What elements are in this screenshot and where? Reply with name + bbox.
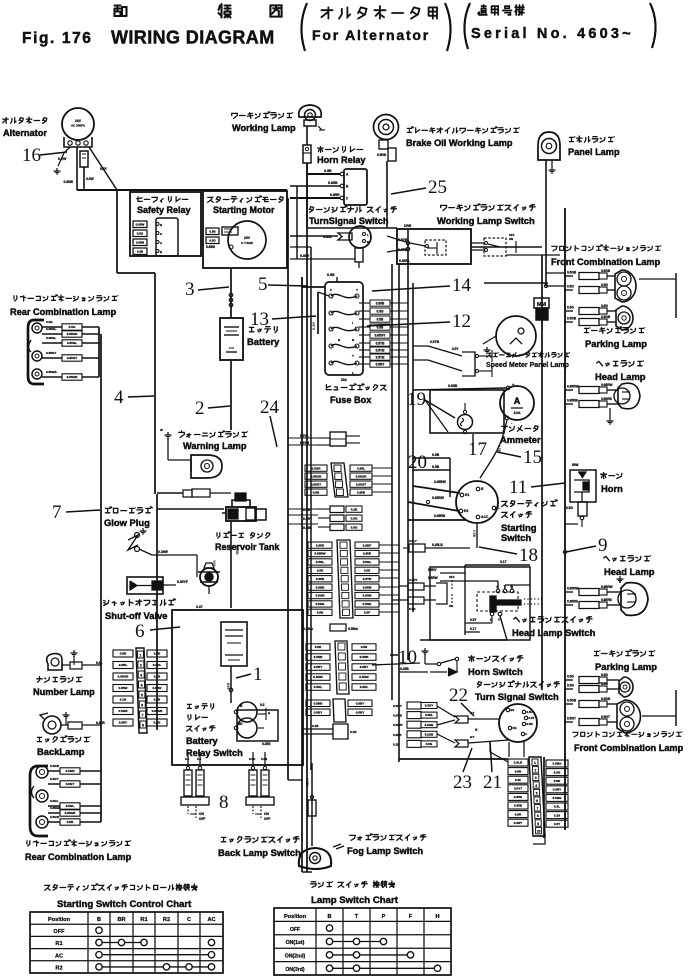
svg-text:10A: 10A bbox=[513, 410, 520, 415]
svg-text:0.2GB: 0.2GB bbox=[425, 723, 435, 727]
svg-text:1: 1 bbox=[140, 654, 142, 658]
oil pressure sender bbox=[200, 568, 218, 586]
warning lamp ground stub bbox=[167, 432, 169, 435]
svg-text:15: 15 bbox=[523, 447, 542, 468]
svg-text:0.5BY: 0.5BY bbox=[314, 665, 324, 669]
svg-text:0.5G: 0.5G bbox=[351, 525, 358, 529]
connector row y548 bbox=[409, 544, 425, 552]
svg-text:Y05: Y05 bbox=[212, 560, 216, 566]
svg-text:0.25B: 0.25B bbox=[262, 742, 271, 746]
parking lamp top rows bbox=[565, 310, 573, 312]
svg-text:Lamp Switch Chart: Lamp Switch Chart bbox=[311, 895, 399, 906]
svg-text:0.5R: 0.5R bbox=[409, 607, 416, 611]
relay coil box bbox=[221, 622, 247, 666]
svg-text:Ammeter: Ammeter bbox=[500, 434, 541, 445]
wire y286 panel lamp junction bbox=[544, 284, 547, 287]
svg-text:Fuse Box: Fuse Box bbox=[330, 395, 372, 405]
svg-text:0.5B: 0.5B bbox=[432, 465, 440, 469]
svg-text:0.85GL: 0.85GL bbox=[67, 341, 77, 345]
svg-text:L: L bbox=[352, 371, 354, 375]
wire reservoir down bbox=[230, 521, 232, 608]
horn body bbox=[570, 470, 596, 502]
wire alternator diagonal bbox=[89, 147, 117, 190]
svg-text:0.5G: 0.5G bbox=[601, 283, 608, 287]
svg-text:0.85W: 0.85W bbox=[153, 686, 162, 690]
svg-text:0.5R: 0.5R bbox=[361, 645, 368, 649]
svg-text:For Alternator: For Alternator bbox=[312, 27, 430, 43]
svg-text:0.5GR: 0.5GR bbox=[312, 466, 322, 470]
svg-text:0.85GR: 0.85GR bbox=[67, 332, 78, 336]
head lamp right label bbox=[597, 361, 644, 367]
svg-text:OFF: OFF bbox=[199, 817, 205, 821]
svg-text:ON(1st): ON(1st) bbox=[286, 940, 305, 946]
svg-text:Switch: Switch bbox=[501, 532, 531, 543]
svg-text:0.5Bw: 0.5Bw bbox=[553, 762, 563, 766]
starting switch control chart title bbox=[45, 884, 197, 890]
svg-text:0.5G: 0.5G bbox=[154, 721, 161, 725]
head lamp switch top wires bbox=[465, 564, 530, 566]
svg-text:Number Lamp: Number Lamp bbox=[33, 687, 95, 697]
svg-text:Back Lamp Switch: Back Lamp Switch bbox=[218, 847, 301, 858]
svg-text:R2: R2 bbox=[163, 917, 170, 923]
brake oil working lamp label bbox=[407, 127, 519, 133]
svg-text:0.1T: 0.1T bbox=[470, 627, 476, 631]
svg-text:B05: B05 bbox=[226, 683, 230, 689]
turn signal flasher connector bbox=[338, 233, 352, 240]
svg-text:0.5GL: 0.5GL bbox=[363, 560, 372, 564]
svg-text:0.85GB: 0.85GB bbox=[46, 370, 57, 374]
svg-text:GY: GY bbox=[470, 735, 474, 739]
chart2 circles bbox=[326, 925, 332, 931]
alternator body bbox=[62, 108, 94, 140]
svg-text:0.5RG: 0.5RG bbox=[553, 796, 563, 800]
svg-text:0.5: 0.5 bbox=[260, 703, 265, 707]
rear comb top wiring rows bbox=[42, 326, 62, 328]
svg-text:24V: 24V bbox=[75, 119, 82, 123]
svg-text:0.5R: 0.5R bbox=[249, 757, 256, 761]
svg-text:5: 5 bbox=[258, 274, 268, 295]
svg-text:6: 6 bbox=[536, 799, 538, 803]
svg-text:0.85B: 0.85B bbox=[316, 577, 325, 581]
svg-text:0.5RY: 0.5RY bbox=[303, 517, 313, 521]
horn relay box bbox=[344, 169, 367, 205]
turn signal switch upper body bbox=[349, 226, 371, 248]
svg-text:0.85R: 0.85R bbox=[330, 193, 340, 197]
svg-text:0.2W: 0.2W bbox=[58, 157, 67, 161]
svg-text:0.5GB: 0.5GB bbox=[50, 764, 60, 768]
battery relay label bbox=[187, 704, 213, 709]
svg-text:0.2B: 0.2B bbox=[393, 742, 400, 746]
horizontal wires right of column to bundle bbox=[372, 467, 392, 469]
svg-text:Relay Switch: Relay Switch bbox=[186, 748, 243, 758]
svg-text:Horn Relay: Horn Relay bbox=[317, 155, 366, 165]
stack feed wires bbox=[154, 647, 156, 649]
glow plug label bbox=[105, 507, 152, 514]
svg-text:0.25LB: 0.25LB bbox=[432, 543, 443, 547]
horn relay pins bbox=[340, 172, 344, 176]
three single connectors y507 bbox=[330, 506, 344, 513]
svg-text:0.1B: 0.1B bbox=[120, 698, 127, 702]
svg-text:Reservoir Tank: Reservoir Tank bbox=[215, 542, 280, 552]
svg-text:0.5RB: 0.5RB bbox=[316, 585, 326, 589]
svg-text:7: 7 bbox=[52, 502, 62, 523]
fuse box outline bbox=[325, 282, 363, 375]
svg-text:0.5G: 0.5G bbox=[567, 285, 574, 289]
svg-text:0.5RW: 0.5RW bbox=[313, 675, 322, 679]
svg-text:0.1T: 0.1T bbox=[500, 560, 507, 564]
svg-text:0.5Y: 0.5Y bbox=[311, 321, 316, 330]
wire trunk bottom left bbox=[100, 733, 102, 822]
number lamp label bbox=[37, 677, 82, 683]
reservoir tank body bbox=[226, 507, 256, 521]
trunk x311 bbox=[310, 247, 312, 770]
svg-text:Working Lamp Switch: Working Lamp Switch bbox=[437, 215, 535, 226]
svg-text:0.85RW: 0.85RW bbox=[432, 496, 445, 500]
svg-text:21: 21 bbox=[483, 772, 502, 793]
head lamp 2 ground bbox=[619, 579, 621, 583]
fuse elements bbox=[329, 294, 333, 298]
alternator label bbox=[3, 117, 47, 123]
turn signal switch upper label bbox=[309, 206, 396, 212]
svg-text:0.5B: 0.5B bbox=[120, 652, 127, 656]
svg-text:0.5TB: 0.5TB bbox=[363, 577, 372, 581]
svg-text:7: 7 bbox=[142, 714, 144, 718]
svg-text:Y: Y bbox=[356, 288, 358, 292]
svg-text:0.8R: 0.8R bbox=[554, 779, 561, 783]
svg-text:0.85W: 0.85W bbox=[119, 686, 128, 690]
horn label bbox=[601, 473, 622, 479]
starting motor box bbox=[203, 191, 287, 268]
svg-text:0.5Y7: 0.5Y7 bbox=[514, 786, 522, 790]
speed meter left connectors bbox=[462, 352, 475, 376]
shut-off valve body bbox=[127, 577, 163, 594]
svg-text:0.85YF: 0.85YF bbox=[177, 580, 188, 584]
svg-text:5: 5 bbox=[536, 791, 538, 795]
svg-text:0.5Y: 0.5Y bbox=[452, 347, 459, 351]
svg-text:0.5GL: 0.5GL bbox=[316, 560, 325, 564]
svg-text:ACC: ACC bbox=[481, 515, 489, 519]
battery relay switch outer box bbox=[172, 610, 303, 765]
svg-text:0.5YL: 0.5YL bbox=[300, 434, 309, 438]
rear comb bottom rows bbox=[48, 770, 60, 772]
connector 5pin y642 bbox=[335, 641, 349, 694]
svg-text:0.5RB: 0.5RB bbox=[377, 153, 387, 157]
svg-text:0.5G: 0.5G bbox=[377, 309, 384, 313]
svg-text:Parking Lamp: Parking Lamp bbox=[595, 661, 657, 672]
warning lamp connector bbox=[183, 490, 192, 497]
big frame line top bbox=[77, 189, 287, 191]
right short x676 bottom bbox=[675, 690, 677, 726]
starting switch body bbox=[456, 481, 498, 523]
svg-text:DRR: DRR bbox=[404, 224, 412, 228]
svg-text:0.5R: 0.5R bbox=[527, 722, 534, 726]
connector 3pin y700 bbox=[333, 699, 346, 722]
wire ammeter to switch bbox=[480, 428, 505, 478]
svg-text:4: 4 bbox=[141, 684, 143, 688]
svg-text:ON: ON bbox=[509, 237, 513, 241]
svg-text:8: 8 bbox=[537, 814, 539, 818]
svg-text:Rear Combination Lamp: Rear Combination Lamp bbox=[10, 307, 117, 317]
svg-text:22: 22 bbox=[449, 685, 468, 706]
svg-text:0.5RL: 0.5RL bbox=[314, 685, 323, 689]
wire warning lamp right bbox=[210, 492, 231, 494]
svg-text:0.5G: 0.5G bbox=[567, 684, 574, 688]
svg-text:0.5YB: 0.5YB bbox=[376, 355, 386, 359]
svg-text:0.5GT: 0.5GT bbox=[567, 717, 576, 721]
svg-text:0.85GT: 0.85GT bbox=[46, 351, 56, 355]
svg-text:Battery: Battery bbox=[247, 336, 280, 347]
svg-text:0.5Y: 0.5Y bbox=[470, 618, 477, 622]
shut-off valve label bbox=[104, 599, 176, 606]
svg-text:0.5G: 0.5G bbox=[46, 320, 53, 324]
svg-text:Speed Meter Panel Lamp: Speed Meter Panel Lamp bbox=[486, 362, 569, 369]
svg-text:OFF: OFF bbox=[53, 929, 65, 935]
svg-text:3: 3 bbox=[535, 776, 537, 780]
svg-text:Glow Plug: Glow Plug bbox=[104, 517, 150, 528]
horn switch label bbox=[469, 656, 523, 662]
svg-text:1: 1 bbox=[534, 761, 536, 765]
reservoir tank label bbox=[217, 532, 270, 538]
svg-text:0.5BY: 0.5BY bbox=[314, 710, 324, 714]
svg-text:B: B bbox=[97, 917, 101, 923]
svg-text:Alternator: Alternator bbox=[3, 128, 47, 138]
chart1 circles bbox=[96, 927, 102, 933]
svg-text:OFF: OFF bbox=[290, 927, 300, 933]
svg-text:18: 18 bbox=[519, 545, 538, 566]
svg-text:0.5W: 0.5W bbox=[86, 177, 95, 181]
svg-text:0.5G: 0.5G bbox=[566, 506, 573, 510]
svg-text:Position: Position bbox=[48, 917, 71, 923]
svg-text:0.5RW: 0.5RW bbox=[359, 675, 368, 679]
alternator ground branch bbox=[64, 147, 70, 153]
svg-text:23: 23 bbox=[453, 772, 472, 793]
front comb lamp top body bbox=[615, 270, 636, 302]
svg-text:0.85RB: 0.85RB bbox=[567, 600, 579, 604]
fuse box top feed bbox=[302, 286, 325, 288]
working lamp connector bbox=[303, 145, 311, 163]
fuse right labels bbox=[359, 302, 370, 304]
back lamp body bbox=[43, 716, 61, 734]
svg-text:6: 6 bbox=[141, 704, 143, 708]
svg-text:0.85GB: 0.85GB bbox=[67, 375, 78, 379]
wire panel lamp down bbox=[545, 160, 547, 286]
svg-text:W: W bbox=[160, 428, 163, 432]
svg-text:0.85B: 0.85B bbox=[328, 181, 338, 185]
svg-text:0.2GB: 0.2GB bbox=[425, 732, 435, 736]
svg-text:2: 2 bbox=[140, 664, 142, 668]
svg-text:Head Lamp: Head Lamp bbox=[604, 566, 655, 577]
svg-text:Front Combination Lamp: Front Combination Lamp bbox=[551, 257, 661, 267]
svg-text:0.5B: 0.5B bbox=[317, 611, 324, 615]
svg-text:Warning Lamp: Warning Lamp bbox=[183, 441, 247, 451]
glow plug element bbox=[128, 535, 138, 550]
svg-text:0.1B: 0.1B bbox=[312, 724, 319, 728]
svg-text:0.5GB: 0.5GB bbox=[601, 697, 611, 701]
svg-text:0.85RB: 0.85RB bbox=[567, 399, 579, 403]
svg-text:Head Lamp: Head Lamp bbox=[595, 371, 646, 382]
wire alternator down-right bbox=[83, 167, 85, 190]
svg-text:0.5GB: 0.5GB bbox=[119, 709, 129, 713]
svg-text:0.85L: 0.85L bbox=[357, 466, 365, 470]
svg-text:0.85GB: 0.85GB bbox=[118, 675, 129, 679]
svg-text:ON(3rd): ON(3rd) bbox=[285, 967, 305, 973]
svg-text:1.25B: 1.25B bbox=[235, 545, 239, 555]
speed meter area box bbox=[484, 283, 548, 343]
svg-text:TurnSignal Switch: TurnSignal Switch bbox=[309, 216, 389, 226]
turn signal switch lower label bbox=[477, 681, 559, 687]
svg-text:3: 3 bbox=[140, 674, 142, 678]
svg-text:7: 7 bbox=[537, 807, 539, 811]
svg-text:OFF: OFF bbox=[264, 817, 270, 821]
wire rows into left stack bbox=[133, 653, 147, 655]
svg-text:0.5G: 0.5G bbox=[601, 673, 608, 677]
bottom center connector stack bbox=[508, 759, 528, 766]
svg-text:P: P bbox=[382, 914, 386, 920]
wire sender bbox=[208, 586, 210, 594]
front comb 2 rows bbox=[565, 703, 573, 705]
svg-text:0.5GB: 0.5GB bbox=[567, 317, 577, 321]
speed meter panel lamp body bbox=[496, 316, 536, 356]
svg-text:0.85B: 0.85B bbox=[448, 384, 458, 388]
horn relay label bbox=[318, 147, 363, 153]
svg-text:Parking Lamp: Parking Lamp bbox=[585, 338, 647, 349]
svg-text:0.5B: 0.5B bbox=[313, 490, 320, 494]
trunk x288 bbox=[287, 198, 289, 780]
svg-text:0.1B: 0.1B bbox=[350, 730, 357, 734]
right trunk x565 bbox=[564, 208, 566, 830]
head lamp switch label bbox=[514, 617, 592, 623]
lamp switch chart title bbox=[311, 881, 395, 887]
svg-text:Horn Switch: Horn Switch bbox=[468, 666, 523, 677]
wire coil down bbox=[230, 666, 232, 703]
svg-text:E: E bbox=[160, 250, 162, 254]
ammeter label bbox=[502, 426, 538, 432]
svg-text:R1: R1 bbox=[140, 917, 147, 923]
back lamp switch pair B bbox=[249, 770, 257, 796]
svg-text:0.5WB: 0.5WB bbox=[393, 723, 403, 727]
svg-text:0.5G: 0.5G bbox=[567, 675, 574, 679]
svg-text:ON: ON bbox=[449, 604, 453, 608]
svg-text:0.5GL: 0.5GL bbox=[66, 804, 75, 808]
working lamp switch label bbox=[441, 204, 536, 211]
svg-text:0.85R: 0.85R bbox=[316, 543, 325, 547]
svg-text:0.5E: 0.5E bbox=[317, 569, 323, 573]
svg-text:0.85GL: 0.85GL bbox=[46, 336, 56, 340]
svg-text:0.5B: 0.5B bbox=[209, 229, 216, 233]
svg-text:Turn Signal Switch: Turn Signal Switch bbox=[475, 691, 559, 702]
turn signal wires to bottom connector bbox=[508, 742, 510, 757]
safety relay connector bbox=[156, 218, 178, 256]
svg-text:0.5RL: 0.5RL bbox=[153, 663, 162, 667]
svg-text:F: F bbox=[409, 914, 413, 920]
svg-text:0.5GT: 0.5GT bbox=[50, 777, 59, 781]
svg-text:1: 1 bbox=[253, 664, 263, 685]
svg-text:L: L bbox=[367, 233, 369, 237]
svg-text:C: C bbox=[187, 917, 191, 923]
svg-text:Serial No. 4603~: Serial No. 4603~ bbox=[471, 26, 634, 42]
horizontal wires from trunk x288 to connector column bbox=[288, 437, 318, 439]
svg-text:0.85GT: 0.85GT bbox=[311, 482, 321, 486]
front combination lamp bottom label bbox=[573, 731, 682, 737]
head lamp right rows bbox=[565, 389, 573, 391]
wire back lamp to trunk bbox=[100, 665, 102, 733]
panel lamp label bbox=[569, 136, 614, 142]
svg-text:0.5R: 0.5R bbox=[315, 645, 322, 649]
turn signal arrow connectors bbox=[437, 706, 455, 717]
svg-text:0.5GY: 0.5GY bbox=[425, 704, 434, 708]
svg-text:0.85RB: 0.85RB bbox=[601, 397, 613, 401]
svg-text:24: 24 bbox=[260, 397, 280, 418]
svg-text:0.85RW: 0.85RW bbox=[567, 587, 578, 591]
svg-text:0.85GT: 0.85GT bbox=[67, 356, 77, 360]
wire working lamp switch to trunk bbox=[471, 246, 542, 248]
svg-text:0.5GB: 0.5GB bbox=[316, 594, 326, 598]
svg-text:0.85L: 0.85L bbox=[425, 713, 433, 717]
svg-text:8: 8 bbox=[219, 792, 229, 813]
svg-text:0.5GB: 0.5GB bbox=[567, 271, 577, 275]
svg-text:0.5B: 0.5B bbox=[67, 820, 74, 824]
svg-text:0.37: 0.37 bbox=[196, 605, 203, 609]
title kanji 配線図 bbox=[115, 6, 127, 17]
left trunk x155 bbox=[154, 273, 156, 494]
svg-text:0.85GY: 0.85GY bbox=[375, 333, 387, 337]
svg-text:12: 12 bbox=[452, 311, 471, 332]
svg-text:0.2S: 0.2S bbox=[554, 813, 560, 817]
svg-text:0.5RY: 0.5RY bbox=[409, 578, 418, 582]
head lamp 2 body bbox=[621, 583, 648, 616]
wire brake lamp down bbox=[386, 161, 388, 228]
head lamp switch bottom diagonal bbox=[500, 616, 507, 640]
parking lamp 2 label bbox=[594, 650, 654, 656]
svg-text:T: T bbox=[355, 914, 359, 920]
svg-text:0.5RY: 0.5RY bbox=[119, 721, 128, 725]
svg-text:0.5RL: 0.5RL bbox=[360, 685, 369, 689]
speed meter label bbox=[487, 352, 570, 357]
single connector y625 bbox=[330, 624, 346, 631]
svg-text:Rear Combination Lamp: Rear Combination Lamp bbox=[25, 852, 132, 862]
parking lamp top label bbox=[584, 327, 644, 333]
svg-text:0.5Bm: 0.5Bm bbox=[303, 627, 313, 631]
svg-text:0.85M: 0.85M bbox=[206, 245, 215, 249]
fog lamp symbol bbox=[299, 848, 331, 869]
svg-text:0.85RW: 0.85RW bbox=[601, 383, 612, 387]
svg-text:0.5RY: 0.5RY bbox=[376, 362, 386, 366]
svg-text:0.5B: 0.5B bbox=[377, 317, 384, 321]
svg-text:Horn: Horn bbox=[601, 483, 623, 494]
svg-text:0.5F: 0.5F bbox=[364, 611, 370, 615]
svg-text:0.5: 0.5 bbox=[197, 757, 202, 761]
svg-text:0.5B: 0.5B bbox=[377, 325, 384, 329]
svg-text:0.5R: 0.5R bbox=[515, 812, 522, 816]
starting motor label bbox=[208, 196, 284, 202]
svg-text:0.5GB: 0.5GB bbox=[50, 815, 60, 819]
starting motor body bbox=[228, 221, 266, 259]
connector 9pin y541 bbox=[337, 540, 353, 618]
fog lamp switch label bbox=[350, 834, 426, 840]
head lamp switch connectors bbox=[408, 583, 424, 590]
svg-text:0.5GT: 0.5GT bbox=[66, 782, 75, 786]
wire ACC down bbox=[476, 523, 478, 548]
svg-text:19: 19 bbox=[407, 389, 426, 410]
svg-text:R1: R1 bbox=[55, 941, 62, 947]
fuse box label bbox=[326, 384, 386, 390]
svg-text:9: 9 bbox=[598, 535, 608, 556]
trunk x297 bbox=[296, 186, 298, 259]
svg-text:0.85Y: 0.85Y bbox=[300, 254, 310, 258]
head lamp right ground bbox=[609, 408, 611, 418]
back lamp switch pair A bbox=[184, 770, 192, 796]
svg-text:0.5L: 0.5L bbox=[554, 805, 560, 809]
